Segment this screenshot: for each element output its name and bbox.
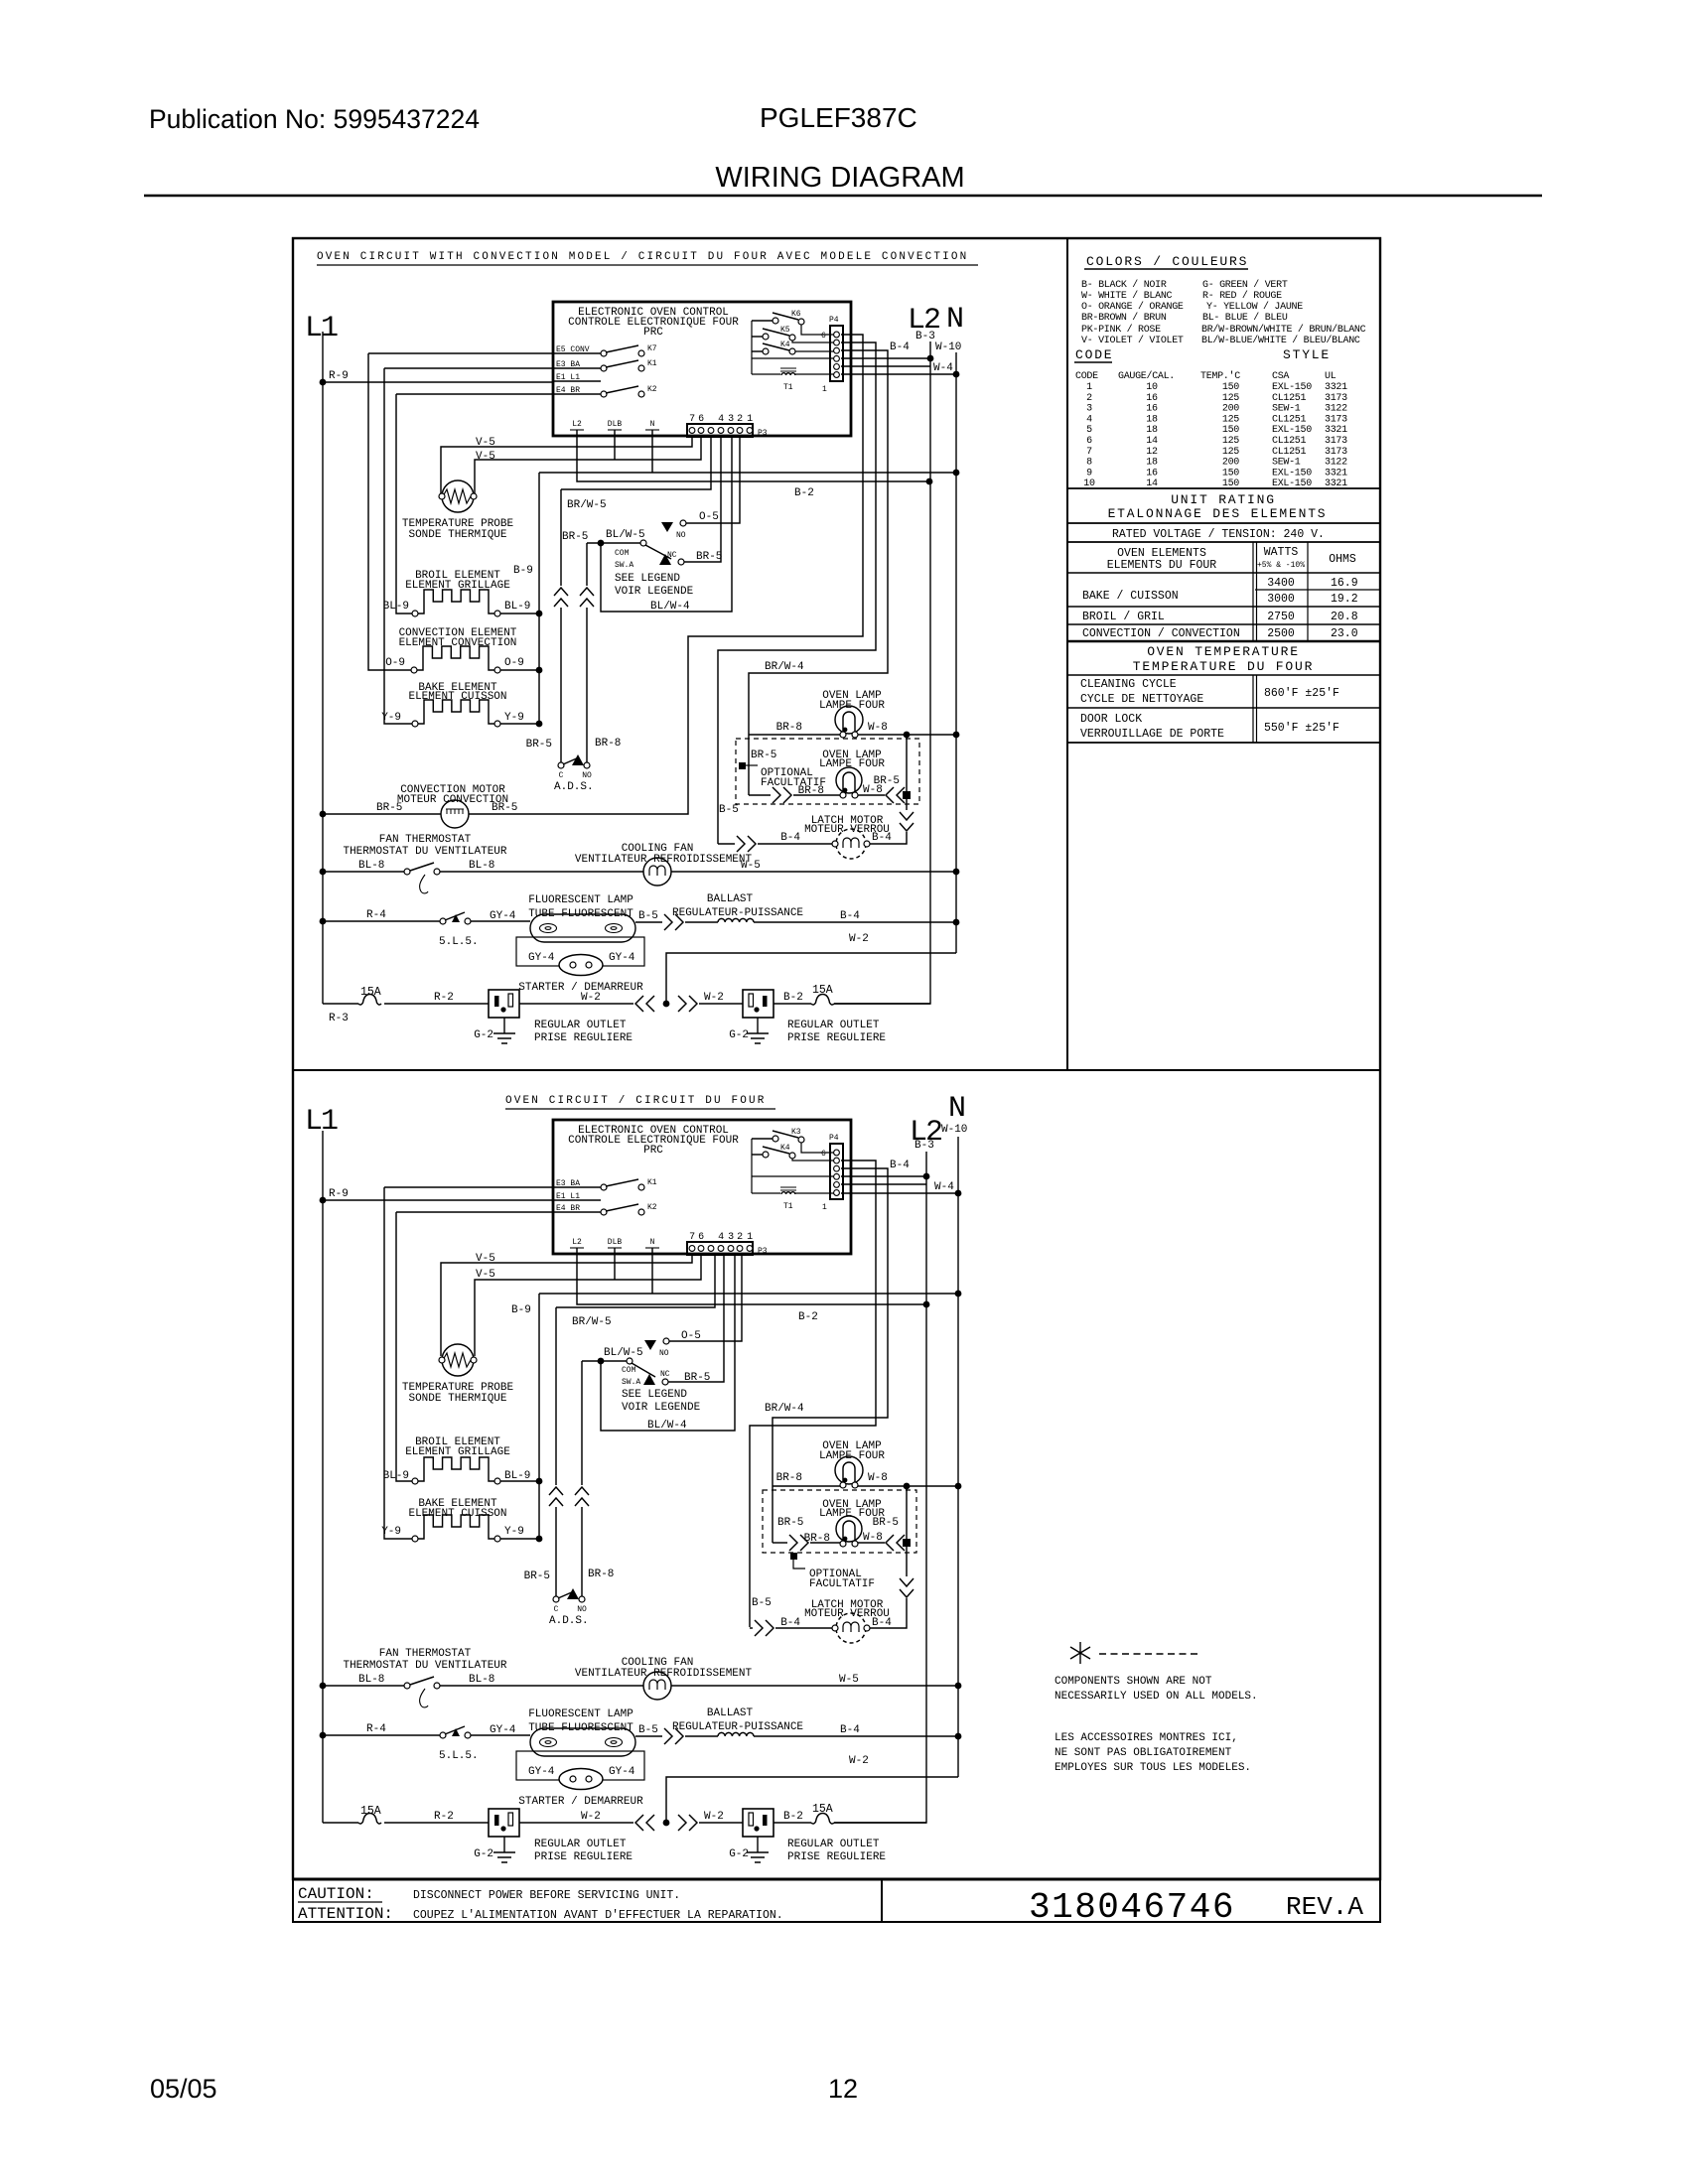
asterisk note	[1070, 1642, 1090, 1664]
wire W-5 to N bus	[671, 1685, 958, 1687]
A.D.S. C contact	[558, 762, 564, 768]
svg-text:REGULAR OUTLET: REGULAR OUTLET	[534, 1839, 627, 1850]
S.L.S. right contact	[465, 918, 471, 924]
wire GY-4 to fluorescent lamp	[471, 1734, 530, 1736]
wire V-5 upper to P3 pin 7	[441, 437, 692, 493]
svg-text:FACULTATIF: FACULTATIF	[809, 1578, 875, 1590]
wire DLB stub	[614, 430, 616, 460]
svg-text:W-4: W-4	[934, 1181, 954, 1193]
wire lamp2 left	[793, 794, 840, 796]
wire E5 CONV row	[368, 352, 554, 354]
svg-text:BL-9: BL-9	[504, 601, 530, 613]
svg-text:W-8: W-8	[863, 1532, 883, 1544]
svg-text:4: 4	[1086, 414, 1092, 425]
svg-text:BL-9: BL-9	[383, 601, 409, 613]
svg-text:3000: 3000	[1267, 593, 1295, 606]
svg-text:G- GREEN / VERT: G- GREEN / VERT	[1202, 279, 1288, 291]
table line	[1067, 707, 1380, 709]
fuse 15A left (bottom)	[358, 1814, 381, 1825]
wire lamp2 left stub	[749, 794, 771, 796]
svg-text:BL-9: BL-9	[383, 1470, 409, 1482]
svg-text:SEE LEGEND: SEE LEGEND	[622, 1389, 687, 1401]
svg-text:3173: 3173	[1325, 414, 1347, 425]
svg-text:BR-5: BR-5	[751, 750, 776, 761]
wire W-2 outlet2	[699, 1003, 743, 1005]
wire B-5	[635, 1735, 662, 1737]
relay K6 blade	[773, 313, 798, 320]
svg-text:TEMPERATURE DU FOUR: TEMPERATURE DU FOUR	[1133, 659, 1314, 674]
wire BR/W-5 to P3 pin 5	[556, 1255, 715, 1307]
relay K1 right contact	[638, 1184, 644, 1190]
chevron B-5	[664, 1728, 683, 1744]
svg-text:Y-9: Y-9	[381, 1526, 401, 1538]
junction B-2/B-3 bus	[923, 1301, 930, 1308]
svg-text:B-2: B-2	[783, 1811, 803, 1823]
svg-text:B-5: B-5	[638, 1724, 658, 1736]
svg-text:20.8: 20.8	[1331, 611, 1358, 623]
svg-text:W-2: W-2	[581, 1811, 601, 1823]
svg-text:K5: K5	[780, 326, 790, 335]
switch SW.A COM contact	[627, 1358, 633, 1364]
wire lamp2 right	[858, 1542, 885, 1544]
svg-text:3: 3	[728, 414, 734, 425]
regular outlet 1 (bottom)	[489, 1809, 519, 1837]
svg-text:GY-4: GY-4	[490, 1724, 516, 1736]
starter	[559, 955, 603, 976]
svg-text:BR/W-5: BR/W-5	[572, 1316, 612, 1328]
svg-text:P3: P3	[758, 429, 768, 438]
svg-text:EMPLOYES SUR TOUS LES MODELES.: EMPLOYES SUR TOUS LES MODELES.	[1055, 1762, 1251, 1774]
wire E5 to convection element	[368, 353, 411, 670]
svg-text:BR/W-4: BR/W-4	[765, 1403, 804, 1415]
wire W-2 to N bus	[666, 1777, 958, 1823]
wire B-4 to B-3 bus	[841, 1175, 926, 1177]
svg-text:9: 9	[1086, 468, 1092, 478]
chevron BR-5	[554, 588, 568, 607]
wire B-4 to N bus	[754, 1735, 958, 1737]
wire K4 to P4 pin2	[792, 1159, 835, 1160]
svg-text:N: N	[650, 420, 655, 429]
bake element	[418, 700, 494, 724]
svg-text:REGULAR OUTLET: REGULAR OUTLET	[787, 1020, 880, 1031]
regular outlet 2 (bottom)	[743, 1809, 774, 1837]
svg-text:DISCONNECT POWER BEFORE SERVIC: DISCONNECT POWER BEFORE SERVICING UNIT.	[413, 1889, 680, 1902]
wire latch drop to latch motor	[870, 1598, 907, 1628]
transformer T1 coil	[781, 1192, 795, 1194]
wire E3 to bake element	[384, 1187, 412, 1539]
svg-text:R- RED / ROUGE: R- RED / ROUGE	[1202, 290, 1282, 302]
svg-text:PRISE REGULIERE: PRISE REGULIERE	[534, 1851, 633, 1863]
relay K1 left contact	[601, 365, 607, 371]
svg-text:BL-9: BL-9	[504, 1470, 530, 1482]
wire B-2 outlet2	[774, 1003, 811, 1005]
regular outlet 1 (top)	[489, 990, 519, 1018]
caution strip divider	[881, 1879, 883, 1922]
ECO row E3 BA wire	[554, 1186, 601, 1188]
junction W-4/N bus	[953, 371, 960, 378]
latch motor right terminal	[864, 1625, 870, 1631]
switch SW.A blade	[645, 545, 671, 559]
bake element (bottom)	[418, 1515, 494, 1539]
wire W-2 outlet1	[519, 1003, 633, 1005]
svg-text:REGULAR OUTLET: REGULAR OUTLET	[787, 1839, 880, 1850]
switch SW.A NC contact	[662, 1379, 668, 1385]
svg-text:THERMOSTAT DU VENTILATEUR: THERMOSTAT DU VENTILATEUR	[343, 846, 506, 858]
wire BR-8 drop upper	[586, 543, 588, 586]
wire BL-8 to cooling fan	[440, 1685, 643, 1687]
svg-text:15A: 15A	[360, 986, 381, 999]
wire GY-4 to fluorescent lamp	[471, 920, 530, 922]
svg-text:P4: P4	[829, 1134, 839, 1143]
junction B-4/B-3 bus	[927, 355, 934, 362]
svg-text:W-8: W-8	[868, 1472, 888, 1484]
junction W-4/N bus	[955, 1190, 962, 1197]
wire V-5 upper to P3 pin 7	[441, 1255, 692, 1356]
stub mark DLB	[608, 429, 622, 431]
latch motor (bottom)	[836, 1613, 866, 1643]
svg-text:K7: K7	[647, 344, 657, 353]
oven lamp 2 (optional)	[836, 767, 862, 798]
svg-text:05/05: 05/05	[150, 2074, 217, 2104]
fuse 15A right (top)	[811, 995, 834, 1006]
rating table column dividers	[1253, 542, 1257, 743]
wire B-2 outlet2	[774, 1822, 811, 1824]
svg-text:3122: 3122	[1325, 458, 1347, 469]
ballast coil (bottom)	[718, 1732, 754, 1736]
svg-text:E3 BA: E3 BA	[556, 360, 580, 369]
svg-text:N: N	[948, 1092, 964, 1126]
stub mark N	[645, 429, 659, 431]
svg-text:7: 7	[1086, 447, 1092, 458]
wire to K5	[752, 336, 763, 338]
svg-text:BAKE / CUISSON: BAKE / CUISSON	[1082, 590, 1179, 603]
relay K1 blade	[606, 360, 638, 367]
svg-text:3: 3	[728, 1232, 734, 1243]
svg-text:EXL-150: EXL-150	[1272, 382, 1312, 393]
bake element (bottom) right terminal	[494, 1536, 500, 1542]
svg-text:EXL-150: EXL-150	[1272, 425, 1312, 436]
svg-text:6: 6	[821, 1150, 826, 1159]
svg-text:E5 CONV: E5 CONV	[556, 345, 590, 354]
fan thermostat left contact	[404, 869, 410, 875]
svg-text:NC: NC	[667, 551, 677, 560]
wire T1 to P4 pin6	[795, 373, 835, 375]
oven lamp 2 (bottom)	[836, 1516, 862, 1547]
junction lamp1/latch drop	[904, 732, 911, 739]
wire V-5 lower to P3 pin 6	[475, 1255, 701, 1356]
junction W-2	[663, 1820, 670, 1827]
junction L1/R-4	[320, 918, 327, 925]
chevron lamp2 left	[773, 787, 791, 803]
wire broil to collector	[500, 1480, 539, 1482]
svg-text:GY-4: GY-4	[490, 910, 516, 922]
svg-text:BL-8: BL-8	[358, 860, 384, 872]
fan thermostat blade	[410, 1677, 434, 1685]
wire lamp1 left	[773, 1485, 840, 1487]
wire R-9 to E1 L1	[323, 381, 554, 383]
svg-text:NO: NO	[676, 531, 686, 540]
svg-text:BL/W-4: BL/W-4	[650, 601, 690, 613]
svg-text:1: 1	[747, 414, 753, 425]
unit rating table top border	[1067, 487, 1380, 489]
wire E3 BA row	[384, 367, 554, 369]
svg-text:B-2: B-2	[794, 487, 814, 499]
wire W-2 to N bus	[666, 953, 956, 1004]
broil element (bottom)	[418, 1457, 494, 1481]
svg-text:SEE LEGEND: SEE LEGEND	[615, 573, 680, 585]
svg-text:K2: K2	[647, 385, 657, 394]
junction L1/R-9	[320, 1197, 327, 1204]
ECO row E4 BR wire	[554, 393, 601, 395]
svg-text:2750: 2750	[1267, 611, 1295, 623]
chevron lamp2 right	[886, 787, 905, 803]
latch motor left terminal	[832, 841, 838, 847]
svg-text:STARTER / DEMARREUR: STARTER / DEMARREUR	[518, 1796, 643, 1808]
chevron lamp2 right	[886, 1535, 905, 1551]
svg-text:BR-5: BR-5	[696, 551, 722, 563]
svg-text:PRISE REGULIERE: PRISE REGULIERE	[787, 1851, 886, 1863]
svg-text:NECESSARILY USED ON ALL MODELS: NECESSARILY USED ON ALL MODELS.	[1055, 1691, 1258, 1703]
broil element left terminal	[412, 611, 418, 616]
svg-text:E1 L1: E1 L1	[556, 373, 580, 382]
svg-text:W-2: W-2	[704, 992, 724, 1004]
broil element (bottom) right terminal	[494, 1478, 500, 1484]
svg-text:UNIT RATING: UNIT RATING	[1171, 492, 1276, 507]
oven lamp 1 (bottom)	[835, 1456, 863, 1488]
relay K4 right contact	[789, 1153, 795, 1159]
junction convection/collector	[536, 667, 543, 674]
SW.A NC arrow	[643, 1374, 655, 1385]
svg-text:K4: K4	[780, 341, 790, 349]
svg-text:7: 7	[689, 414, 695, 425]
junction lamp1/latch drop	[904, 1483, 911, 1490]
junction W-5/N bus	[955, 1683, 962, 1690]
wire latch left stub	[750, 1627, 753, 1629]
svg-text:6: 6	[698, 1232, 704, 1243]
stub mark DLB	[608, 1247, 622, 1249]
wire BL/W-4 to P3 pin 3	[601, 437, 732, 612]
starter terminal	[586, 1776, 592, 1782]
svg-text:6: 6	[1086, 436, 1092, 447]
svg-text:REGULATEUR-PUISSANCE: REGULATEUR-PUISSANCE	[672, 907, 803, 919]
wire P4 pin3 to oven lamp feed BR/W-4	[749, 350, 888, 795]
svg-text:N: N	[650, 1238, 655, 1247]
svg-text:BALLAST: BALLAST	[707, 893, 754, 905]
wire BR-5 drop lower	[560, 608, 562, 762]
svg-text:VOIR LEGENDE: VOIR LEGENDE	[615, 586, 694, 598]
svg-text:3321: 3321	[1325, 382, 1347, 393]
wire R-2 to outlet	[384, 1822, 489, 1824]
wire BR-8 drop upper	[581, 1361, 583, 1485]
connector P4	[830, 326, 843, 381]
probe right terminal	[471, 1357, 477, 1363]
svg-text:O-5: O-5	[699, 511, 719, 523]
oven lamp 1	[835, 706, 863, 738]
svg-text:Y-9: Y-9	[381, 712, 401, 724]
optional pointer line	[793, 1560, 805, 1569]
wire to T1	[752, 1192, 780, 1194]
relay K1 left contact	[601, 1184, 607, 1190]
junction L1/R-9	[320, 379, 327, 386]
svg-text:BR-5: BR-5	[873, 1517, 899, 1529]
svg-text:W-10: W-10	[935, 341, 961, 353]
relay K7 right contact	[638, 350, 644, 356]
svg-text:16: 16	[1146, 404, 1158, 415]
chevron BR-5	[549, 1487, 563, 1506]
chevron W-2 right	[678, 1815, 697, 1831]
B-3 bus (bottom)	[834, 1152, 926, 1823]
svg-text:E4 BR: E4 BR	[556, 1204, 580, 1213]
svg-text:BL-8: BL-8	[469, 1674, 494, 1686]
svg-text:+5% & -10%: +5% & -10%	[1257, 561, 1305, 570]
fuse 15A right (bottom)	[811, 1814, 834, 1825]
stub mark N	[645, 1247, 659, 1249]
svg-text:OHMS: OHMS	[1329, 553, 1356, 566]
svg-text:2500: 2500	[1267, 627, 1295, 640]
svg-text:23.0: 23.0	[1331, 627, 1358, 640]
wire E3 to bake element	[384, 368, 412, 724]
svg-text:SW.A: SW.A	[615, 561, 633, 570]
svg-text:150: 150	[1222, 382, 1239, 393]
svg-text:K2: K2	[647, 1203, 657, 1212]
svg-text:W-4: W-4	[933, 362, 953, 374]
svg-text:G-2: G-2	[729, 1029, 749, 1041]
svg-text:16.9: 16.9	[1331, 577, 1358, 590]
ground outlet 1 (top)	[493, 1018, 515, 1043]
wire BL/W-4 to P3 pin 3	[601, 1255, 735, 1431]
wire BL/W-5 to COM	[587, 542, 640, 544]
svg-text:O- ORANGE / ORANGE: O- ORANGE / ORANGE	[1081, 301, 1184, 313]
wire L1 to fan thermostat	[323, 1685, 404, 1687]
convection element	[417, 646, 494, 670]
L1 bus (bottom)	[322, 1131, 324, 1823]
svg-text:3173: 3173	[1325, 393, 1347, 404]
chevron W-2 left	[635, 996, 654, 1012]
switch SW.A NO contact	[680, 520, 686, 526]
svg-text:B-9: B-9	[513, 565, 533, 577]
probe left terminal	[439, 1357, 445, 1363]
wire P4 pin2 to latch feed B-5	[750, 1160, 876, 1627]
stub mark L2	[570, 1247, 584, 1249]
svg-text:BR-5: BR-5	[492, 802, 517, 814]
ECO row E3 BA wire	[554, 367, 601, 369]
wire P4 pin3 to oven lamp feed BR/W-4	[773, 1168, 888, 1543]
svg-text:ELEMENT CONVECTION: ELEMENT CONVECTION	[399, 637, 517, 649]
wire to K3	[752, 1138, 773, 1140]
table thick line	[1067, 640, 1380, 643]
A.D.S. blade	[563, 757, 579, 764]
caution strip top border	[293, 1878, 1380, 1881]
bake element right terminal	[494, 721, 500, 727]
svg-text:550'F ±25'F: 550'F ±25'F	[1264, 722, 1339, 735]
svg-text:PGLEF387C: PGLEF387C	[760, 102, 917, 133]
wire BR-5 drop upper	[555, 1307, 557, 1485]
cooling fan motor	[643, 858, 671, 886]
svg-text:R-2: R-2	[434, 1811, 454, 1823]
svg-text:BALLAST: BALLAST	[707, 1707, 754, 1719]
svg-text:ELEMENT GRILLAGE: ELEMENT GRILLAGE	[405, 580, 510, 592]
svg-text:BR-5: BR-5	[526, 739, 552, 751]
ATTENTION underline	[298, 1921, 402, 1923]
wire O-5 to P3 pin 2	[669, 1255, 742, 1341]
svg-text:B-9: B-9	[511, 1304, 531, 1316]
chevron latch drop	[900, 812, 914, 831]
svg-text:O-9: O-9	[385, 657, 405, 669]
svg-text:BR-8: BR-8	[588, 1569, 614, 1580]
svg-text:REGULAR OUTLET: REGULAR OUTLET	[534, 1020, 627, 1031]
svg-text:B-4: B-4	[840, 1724, 860, 1736]
svg-text:BR/W-BROWN/WHITE / BRUN/BLANC: BR/W-BROWN/WHITE / BRUN/BLANC	[1201, 324, 1366, 336]
svg-text:2: 2	[737, 414, 743, 425]
wire lamp2 right	[858, 794, 885, 796]
svg-text:W-5: W-5	[839, 1674, 859, 1686]
starter wiring box (bottom)	[516, 1751, 644, 1780]
fan thermostat right contact	[434, 869, 440, 875]
svg-text:150: 150	[1222, 425, 1239, 436]
SW.A NO arrow	[661, 522, 673, 532]
svg-text:16: 16	[1146, 468, 1158, 478]
svg-text:15A: 15A	[360, 1805, 381, 1818]
ground outlet 2 (bottom)	[747, 1837, 769, 1862]
svg-text:16: 16	[1146, 393, 1158, 404]
junction bake/collector	[536, 1536, 543, 1543]
svg-text:3400: 3400	[1267, 577, 1295, 590]
latch motor left terminal	[832, 1625, 838, 1631]
SW.A NO arrow	[644, 1340, 656, 1350]
svg-text:8: 8	[1086, 458, 1092, 469]
convection element right terminal	[494, 667, 500, 673]
wire W-2 outlet1	[519, 1822, 633, 1824]
ECO row E1 L1 wire	[554, 1199, 601, 1201]
svg-text:B-2: B-2	[783, 992, 803, 1004]
svg-text:SONDE THERMIQUE: SONDE THERMIQUE	[408, 529, 506, 541]
svg-text:DLB: DLB	[608, 420, 623, 429]
connector P4 (bottom)	[830, 1144, 843, 1199]
wire elements common to N bus	[539, 472, 956, 474]
svg-text:GY-4: GY-4	[528, 952, 555, 964]
temperature probe	[442, 480, 474, 512]
svg-text:125: 125	[1222, 414, 1239, 425]
relay K7 left contact	[601, 350, 607, 356]
wire P4 pin2 to latch feed B-5	[718, 342, 876, 844]
wire from L1	[323, 1822, 358, 1824]
svg-text:1: 1	[747, 1232, 753, 1243]
legend heading underline	[1084, 268, 1248, 270]
svg-text:CLEANING CYCLE: CLEANING CYCLE	[1080, 678, 1177, 691]
svg-text:19.2: 19.2	[1331, 593, 1358, 606]
svg-text:COUPEZ L'ALIMENTATION AVANT D': COUPEZ L'ALIMENTATION AVANT D'EFFECTUER …	[413, 1909, 783, 1922]
relay K1 right contact	[638, 365, 644, 371]
svg-text:WIRING DIAGRAM: WIRING DIAGRAM	[715, 162, 964, 194]
junction B-4/B-3 bus	[923, 1173, 930, 1180]
junction square lamp2	[903, 791, 911, 799]
wire to P4 pin4	[752, 357, 835, 359]
relay K2 right contact	[638, 391, 644, 397]
optional lamp dashed box	[763, 1490, 916, 1553]
svg-text:B- BLACK / NOIR: B- BLACK / NOIR	[1081, 279, 1167, 291]
S.L.S. right contact	[465, 1732, 471, 1738]
svg-text:NO: NO	[659, 1349, 669, 1358]
svg-text:K3: K3	[791, 1128, 801, 1137]
svg-text:BR/W-4: BR/W-4	[765, 661, 804, 673]
A.D.S. blade	[558, 1591, 574, 1598]
ground outlet 1 (bottom)	[493, 1837, 515, 1862]
switch SW.A NC contact	[678, 559, 684, 565]
svg-text:EXL-150: EXL-150	[1272, 468, 1312, 478]
wire BR-5 drop lower	[555, 1507, 557, 1596]
wire E3 BA row	[384, 1186, 554, 1188]
wire B-9 element collector	[538, 1294, 540, 1539]
